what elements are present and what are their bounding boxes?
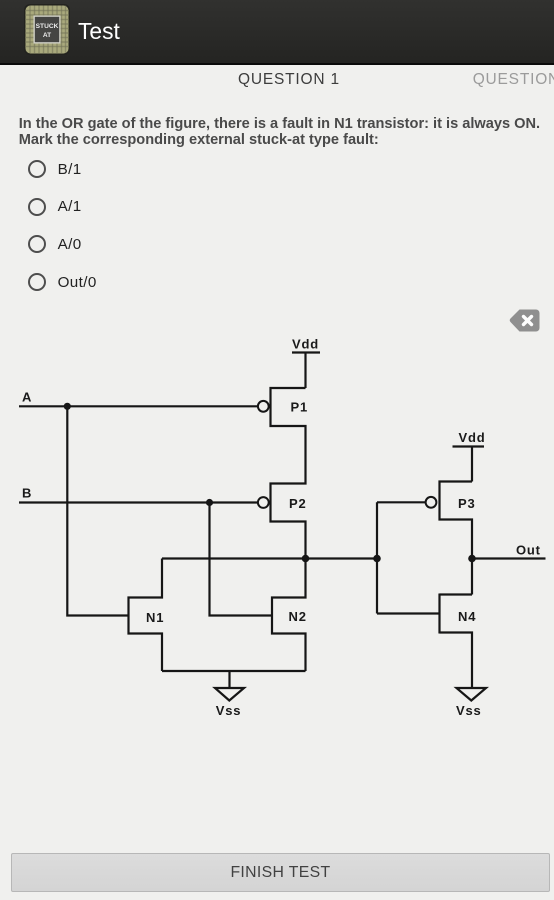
- svg-text:N4: N4: [458, 609, 476, 624]
- svg-text:Out: Out: [516, 543, 541, 558]
- svg-text:A: A: [22, 389, 32, 404]
- svg-text:P3: P3: [458, 496, 476, 511]
- svg-text:B: B: [22, 485, 32, 500]
- svg-text:Vss: Vss: [216, 703, 242, 718]
- svg-text:Vdd: Vdd: [292, 337, 319, 352]
- svg-text:N1: N1: [146, 610, 164, 625]
- svg-text:N2: N2: [289, 609, 307, 624]
- svg-text:Vdd: Vdd: [459, 430, 486, 445]
- svg-text:P1: P1: [291, 400, 309, 415]
- svg-text:P2: P2: [289, 496, 307, 511]
- svg-text:Vss: Vss: [456, 703, 482, 718]
